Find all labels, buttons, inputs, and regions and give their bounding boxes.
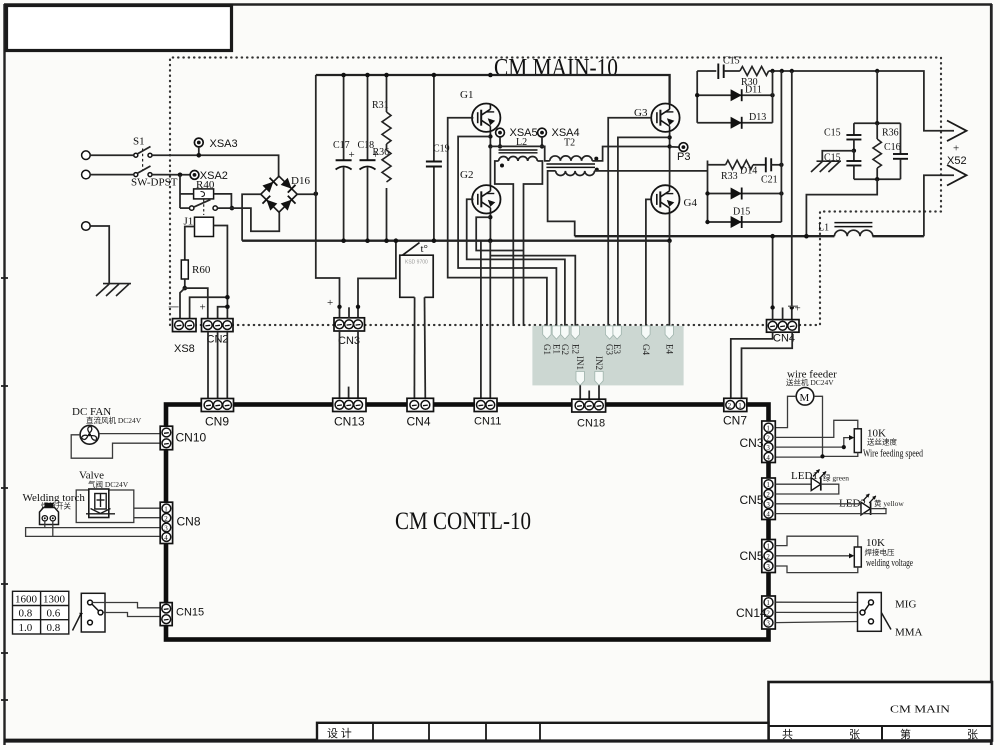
wire CN4 minus riser xyxy=(772,236,774,320)
wire motor to CN3 xyxy=(776,396,797,427)
svg-text:R36: R36 xyxy=(882,128,899,139)
driver board shaded xyxy=(532,326,683,386)
svg-text:0.6: 0.6 xyxy=(47,608,61,620)
input terminal line2 xyxy=(82,170,91,179)
bottom strip cells xyxy=(317,723,769,741)
wire R40 leads xyxy=(180,193,194,195)
svg-text:送丝机 DC24V: 送丝机 DC24V xyxy=(786,377,834,387)
svg-text:第: 第 xyxy=(900,727,911,741)
wire CN11 pin1 riser xyxy=(480,241,482,400)
svg-text:送丝速度: 送丝速度 xyxy=(867,437,897,447)
driver pin G3 xyxy=(605,326,613,339)
node bridge plus xyxy=(314,192,319,197)
svg-text:1600: 1600 xyxy=(15,594,38,606)
wire half-bridge mid to T2 xyxy=(490,146,549,161)
svg-text:1: 1 xyxy=(164,505,168,513)
svg-text:CN3: CN3 xyxy=(338,335,360,347)
resistor R36 xyxy=(373,144,392,241)
svg-text:E3: E3 xyxy=(612,344,622,354)
wire-size table xyxy=(13,591,69,634)
svg-text:IN1: IN1 xyxy=(575,356,585,370)
svg-text:welding voltage: welding voltage xyxy=(866,557,913,569)
wire G1 emitter node xyxy=(489,132,491,147)
connector CN18 xyxy=(572,399,606,429)
wire filter bottom xyxy=(854,178,901,180)
wire CN4 plus riser xyxy=(791,71,793,321)
svg-text:G4: G4 xyxy=(641,344,651,355)
input terminal line1 xyxy=(82,151,91,160)
svg-text:L2: L2 xyxy=(516,137,527,148)
wire contact to bridge AC2 xyxy=(217,208,279,231)
wire E1 sense xyxy=(458,137,556,326)
svg-text:4: 4 xyxy=(164,534,168,542)
svg-text:C15: C15 xyxy=(723,56,740,67)
wire torch to CN8 xyxy=(26,528,162,537)
ground chassis left xyxy=(96,284,131,296)
wire S1 line1 to bridge AC1 xyxy=(90,154,134,156)
wire T2 secondary left to output return xyxy=(548,171,575,236)
resistor R60 xyxy=(181,260,211,279)
wire filter ground branch xyxy=(822,151,854,162)
driver pin G4 xyxy=(642,326,650,339)
svg-text:CN5: CN5 xyxy=(740,493,764,507)
output return bus xyxy=(575,235,835,237)
earth terminal xyxy=(82,222,91,231)
wire selector switch xyxy=(73,593,106,632)
filter capacitor C16 xyxy=(884,123,908,179)
node XSA2 branch xyxy=(178,173,183,178)
transformer T2 xyxy=(546,138,598,176)
svg-text:1300: 1300 xyxy=(43,594,66,606)
IGBT G3 xyxy=(634,104,680,132)
svg-text:焊接电压: 焊接电压 xyxy=(865,547,895,557)
svg-text:CM CONTL-10: CM CONTL-10 xyxy=(395,508,531,535)
svg-text:共: 共 xyxy=(782,728,793,741)
driver pin G1 xyxy=(543,326,551,339)
svg-text:C16: C16 xyxy=(884,142,901,153)
wire E4 sense to pin xyxy=(668,241,670,326)
svg-text:1: 1 xyxy=(766,481,770,489)
wire G2 gate xyxy=(467,199,565,326)
svg-text:CN7: CN7 xyxy=(723,414,747,428)
revision box top-left xyxy=(7,6,232,51)
capacitor C19 xyxy=(426,75,450,241)
current transformer L2 xyxy=(499,137,538,168)
svg-text:E2: E2 xyxy=(570,344,580,354)
wire G2 emitter to CN11 xyxy=(489,241,491,401)
filter capacitor C15 upper xyxy=(824,71,901,151)
connector CN14 xyxy=(736,596,775,629)
filter capacitor C15 lower xyxy=(824,149,861,180)
svg-text:CM MAIN-10: CM MAIN-10 xyxy=(494,55,618,82)
IGBT G2 xyxy=(460,169,500,214)
inductor L1 xyxy=(818,223,873,237)
bridge rectifier D16 xyxy=(261,175,311,212)
svg-text:G1: G1 xyxy=(460,89,473,101)
wire valve to CN8 xyxy=(134,507,162,509)
resistor R31 xyxy=(372,75,391,144)
CM MAIN dotted board outline xyxy=(170,58,941,326)
svg-text:P3: P3 xyxy=(677,151,690,163)
welding torch switch xyxy=(23,492,86,525)
svg-text:+: + xyxy=(200,302,206,314)
svg-text:张: 张 xyxy=(967,728,978,741)
wire XS8 pin2 xyxy=(190,297,228,318)
svg-text:黄 yellow: 黄 yellow xyxy=(874,498,904,508)
svg-text:1: 1 xyxy=(738,402,742,410)
snubber resistor R30 xyxy=(740,67,773,89)
svg-text:C21: C21 xyxy=(761,175,778,186)
wire CN18 pin2 stub xyxy=(588,391,590,401)
connector CN8 xyxy=(160,502,201,543)
svg-text:1.0: 1.0 xyxy=(19,622,33,634)
wire DC plus riser xyxy=(315,75,317,194)
svg-text:2: 2 xyxy=(766,609,770,617)
svg-text:G1: G1 xyxy=(542,344,552,355)
wire to XS8 pin1 xyxy=(180,288,185,318)
wire IN2 to CN18 xyxy=(598,385,600,400)
svg-text:+: + xyxy=(795,303,801,315)
svg-text:2: 2 xyxy=(766,491,770,499)
potentiometer welding voltage 10K xyxy=(776,536,914,572)
diode D15 xyxy=(705,71,781,228)
connector CN6 xyxy=(740,540,776,573)
svg-text:D16: D16 xyxy=(291,175,310,187)
svg-text:G2: G2 xyxy=(460,169,473,181)
wire E3 sense xyxy=(618,137,670,326)
LED1 green xyxy=(776,469,850,494)
connector P3 xyxy=(670,143,691,163)
wire G4 emitter xyxy=(669,214,671,241)
svg-text:3: 3 xyxy=(164,525,168,533)
wire T2 primary right to G3 mid xyxy=(592,147,669,161)
diode D13 xyxy=(697,71,772,129)
top DC bus xyxy=(316,75,670,103)
wire control plus drop xyxy=(316,194,340,319)
connector CN11 xyxy=(474,398,501,427)
wire CN2 to CN9 risers xyxy=(207,332,209,399)
driver pin IN1 xyxy=(576,372,584,386)
svg-text:CN18: CN18 xyxy=(577,418,605,430)
ground chassis right xyxy=(811,161,841,172)
connector XSA5 xyxy=(496,127,538,139)
wire G2 emitter xyxy=(489,214,491,241)
svg-text:T2: T2 xyxy=(564,138,575,149)
wire S1 line2 xyxy=(90,174,134,176)
svg-text:气阀 DC24V: 气阀 DC24V xyxy=(88,479,129,489)
wire thermostat legs xyxy=(413,297,415,399)
wire to CN2 pin1 xyxy=(185,288,208,318)
diode D14 xyxy=(705,161,783,223)
relay J1 xyxy=(184,216,214,237)
svg-text:设 计: 设 计 xyxy=(327,727,352,740)
svg-text:直流风机 DC24V: 直流风机 DC24V xyxy=(86,415,142,425)
svg-text:1: 1 xyxy=(766,425,770,433)
svg-text:CN14: CN14 xyxy=(736,606,767,620)
svg-text:Wire feeding speed: Wire feeding speed xyxy=(863,448,923,460)
connector CN13 xyxy=(333,398,366,428)
svg-text:CN13: CN13 xyxy=(334,415,365,429)
wire G3 emitter chain xyxy=(669,132,671,185)
switch S1 (SW-DPST) xyxy=(131,136,178,189)
wire L2 leads down xyxy=(495,161,514,326)
svg-text:D15: D15 xyxy=(733,207,750,218)
thermostat t xyxy=(400,243,433,298)
svg-text:E1: E1 xyxy=(551,344,561,354)
svg-text:MMA: MMA xyxy=(895,627,923,639)
svg-text:D11: D11 xyxy=(745,85,762,96)
polarity minus XS8 xyxy=(169,306,179,308)
capacitor C17 xyxy=(333,75,355,241)
wire X52 minus xyxy=(924,175,954,236)
svg-text:2: 2 xyxy=(164,515,168,523)
title block xyxy=(769,682,993,741)
connector CN4 thermostat xyxy=(407,398,434,428)
driver pin IN2 xyxy=(595,372,603,386)
svg-text:CN8: CN8 xyxy=(177,515,201,529)
svg-text:C15: C15 xyxy=(824,128,841,139)
CM CONTL board box xyxy=(166,405,769,640)
svg-text:1: 1 xyxy=(766,543,770,551)
connector CN4 output sense xyxy=(767,320,800,345)
driver pin G2 xyxy=(561,326,569,339)
driver pin E4 xyxy=(665,326,673,339)
svg-text:+: + xyxy=(327,297,333,309)
svg-text:3: 3 xyxy=(766,620,770,628)
svg-text:3: 3 xyxy=(766,501,770,509)
svg-text:L1: L1 xyxy=(818,223,829,234)
svg-text:绿 green: 绿 green xyxy=(823,474,849,483)
svg-text:CN9: CN9 xyxy=(205,415,229,429)
connector CN3 main xyxy=(334,318,365,347)
wire G1 gate xyxy=(448,118,547,326)
wire R40 branch vertical xyxy=(179,175,181,208)
svg-text:R33: R33 xyxy=(721,171,738,182)
DC FAN motor xyxy=(72,406,142,444)
snubber capacitor C15 xyxy=(697,56,740,80)
svg-text:0.8: 0.8 xyxy=(47,622,61,634)
wire IN1 to CN18 xyxy=(579,385,581,400)
wire driver feed xyxy=(491,256,576,326)
connector XSA4 xyxy=(538,127,580,139)
svg-text:SW-DPST: SW-DPST xyxy=(131,177,178,189)
wire J1 left to R60 xyxy=(185,227,195,261)
resistor R40 xyxy=(194,179,215,199)
svg-text:CN15: CN15 xyxy=(176,607,204,619)
driver pin labels xyxy=(542,344,674,370)
connector XSA2 xyxy=(190,170,228,182)
svg-text:M: M xyxy=(800,392,810,404)
solenoid valve xyxy=(76,470,134,523)
connector CN2 xyxy=(202,319,234,346)
wire T2 secondary right to snubber rail xyxy=(594,170,707,172)
svg-text:2: 2 xyxy=(728,402,732,410)
resistor R33 xyxy=(708,160,753,182)
driver pin E3 xyxy=(613,326,621,339)
svg-text:3: 3 xyxy=(766,444,770,452)
svg-text:CN4: CN4 xyxy=(407,415,431,429)
wire R60 bottom node xyxy=(184,279,186,288)
wire J1 right down xyxy=(214,226,228,319)
wire E2 sense xyxy=(476,217,523,250)
wire selector to CN15 xyxy=(92,603,161,608)
svg-text:4: 4 xyxy=(766,454,770,462)
svg-text:XSA3: XSA3 xyxy=(210,138,238,150)
capacitor C21 xyxy=(753,157,784,185)
IGBT G1 xyxy=(460,89,500,132)
connector CN10 xyxy=(160,426,206,450)
wire CN4 pin2 stub xyxy=(782,308,784,321)
node R40 contact out xyxy=(230,206,235,211)
connector CN5 xyxy=(740,478,776,520)
connector CN3 control xyxy=(740,421,776,463)
connector CN9 xyxy=(201,399,233,429)
svg-text:2: 2 xyxy=(766,553,770,561)
svg-text:IN2: IN2 xyxy=(594,356,604,370)
wire fan to CN10 xyxy=(99,433,162,435)
svg-text:CN11: CN11 xyxy=(474,416,501,428)
svg-text:R60: R60 xyxy=(192,264,211,276)
wire bridge plus xyxy=(297,193,316,195)
connector XS8 xyxy=(173,319,197,355)
connector CN15 xyxy=(160,603,204,626)
output plus line xyxy=(773,71,955,131)
wire CN4 pin1 drop to CN7 xyxy=(731,332,773,400)
filter resistor R36 xyxy=(873,123,899,179)
svg-text:CN3: CN3 xyxy=(740,436,764,450)
capacitor C18 xyxy=(358,75,379,241)
LED2 yellow xyxy=(776,494,905,515)
svg-text:G4: G4 xyxy=(684,197,698,209)
svg-text:+: + xyxy=(349,149,355,161)
svg-text:2: 2 xyxy=(766,434,770,442)
svg-text:MIG: MIG xyxy=(895,599,916,611)
svg-text:0.8: 0.8 xyxy=(19,608,33,620)
wire CN4 pin3 drop to CN7 xyxy=(742,332,793,400)
wire earth xyxy=(90,226,109,284)
wire CN2 pin2 xyxy=(218,307,228,319)
svg-text:t°: t° xyxy=(421,243,428,255)
svg-text:CN10: CN10 xyxy=(176,431,207,445)
svg-text:KSD 9700: KSD 9700 xyxy=(405,260,428,266)
svg-text:E4: E4 xyxy=(664,344,674,354)
wire G2 collector xyxy=(489,146,491,185)
potentiometer wire speed 10K xyxy=(776,420,924,459)
svg-text:D14: D14 xyxy=(740,166,757,177)
IGBT G4 xyxy=(651,185,697,213)
connector CN7 xyxy=(723,398,747,427)
svg-text:C17: C17 xyxy=(333,140,350,151)
svg-text:X52: X52 xyxy=(947,155,967,167)
wire feeder motor xyxy=(786,369,837,406)
svg-text:+: + xyxy=(953,143,959,155)
svg-text:S1: S1 xyxy=(133,136,145,148)
bottom DC bus xyxy=(242,240,669,242)
node S1-XSA3 xyxy=(197,153,202,158)
wire bridge minus to bus xyxy=(242,194,261,241)
diode D11 xyxy=(695,71,775,123)
svg-text:G2: G2 xyxy=(560,344,570,355)
wire CN3 pin3 to bus xyxy=(358,241,396,319)
mode switch MIG/MMA xyxy=(776,593,923,639)
svg-text:1: 1 xyxy=(766,599,770,607)
driver pin E2 xyxy=(571,326,579,339)
svg-text:3: 3 xyxy=(766,563,770,571)
output terminal X52 xyxy=(947,121,967,186)
connector XSA3 xyxy=(194,138,237,150)
svg-text:D13: D13 xyxy=(749,112,766,123)
relay contact K-R40 xyxy=(180,200,217,216)
svg-text:XS8: XS8 xyxy=(174,343,195,355)
wire XSA3 stub xyxy=(198,147,200,155)
svg-text:张: 张 xyxy=(849,728,860,741)
svg-text:CM MAIN: CM MAIN xyxy=(890,704,950,716)
svg-text:4: 4 xyxy=(766,511,770,519)
wire G3 gate xyxy=(608,118,651,326)
wire CN3 to CN13 risers xyxy=(339,331,341,398)
wire CN3 pin2 stub xyxy=(348,307,350,318)
svg-text:CN5: CN5 xyxy=(740,549,764,563)
driver pin E1 xyxy=(552,326,560,339)
wire G4 gate xyxy=(646,199,651,326)
